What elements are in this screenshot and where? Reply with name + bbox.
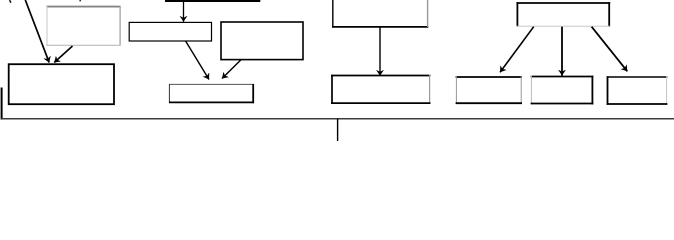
arrow: long diagonal into left box [25,0,49,63]
box: wide flat box [129,22,211,41]
wire: tiny cut-off tick above gray box [79,0,81,1]
arrow: diagonal from wide box into small box [186,41,209,80]
box: box right of wide box [221,22,303,60]
wire: T connector horizontal bar [332,26,428,28]
arrow: short diagonal from gray box into left box [54,46,72,63]
wire: bottom left L vertical [1,88,3,120]
box: middle box under T connector [331,75,431,105]
wire: bottom long horizontal line [1,118,674,120]
wire: cut-off line stub top-left [10,0,11,3]
wire: thick cut-off bar at top middle [165,0,260,2]
wire: T connector right vertical (gray) [427,0,429,27]
box: bottom right child box 3 [607,76,668,105]
box: small flat box below middle [169,84,254,103]
arrow: T connector drop into middle box [379,27,381,76]
arrow: fan right from parent box [592,27,628,72]
wire: bottom center vertical drop [337,119,339,141]
box: bottom right child box 1 [456,76,522,104]
box: top right parent box [516,2,610,27]
wire: T connector left vertical [332,0,334,28]
arrow: diagonal from right box into small box [222,60,241,79]
arrow: fan middle from parent box [561,27,563,76]
arrow: fan left from parent box [500,27,534,73]
box: bottom right child box 2 [531,76,594,105]
box: large left box [9,64,114,104]
arrow: vertical drop from top bar into wide box [183,2,185,22]
box: gray box top-left [46,6,120,46]
